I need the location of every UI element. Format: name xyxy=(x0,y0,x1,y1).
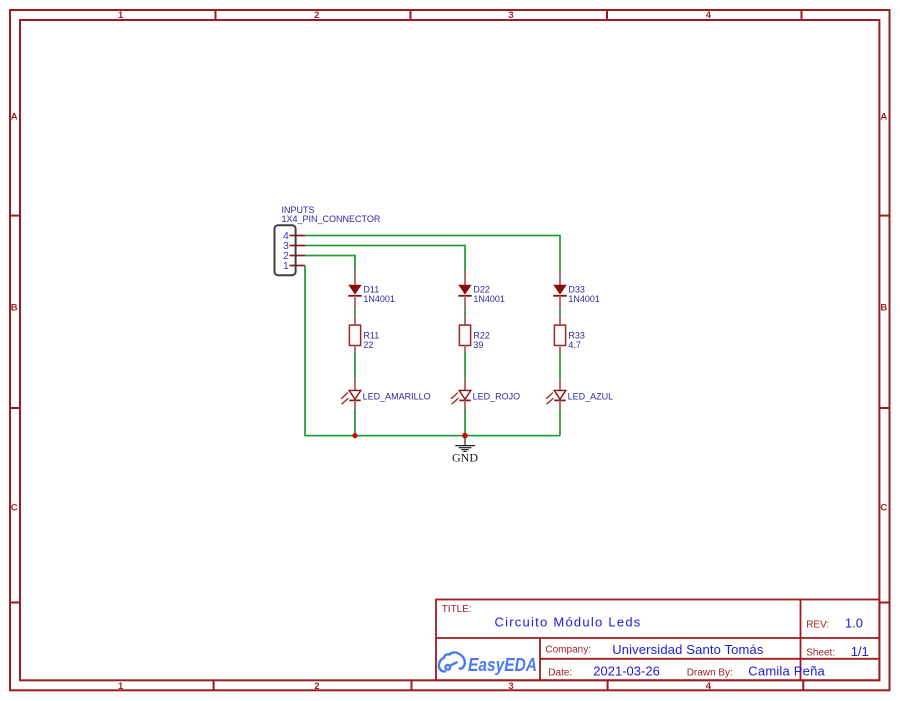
wire LED_AZUL to bus xyxy=(559,410,561,436)
junction at GND / bus xyxy=(462,433,468,439)
svg-text:Circuito Módulo Leds: Circuito Módulo Leds xyxy=(494,614,641,629)
svg-text:GND: GND xyxy=(452,450,478,464)
resistor R33 xyxy=(554,315,565,353)
wire R11 to LED_AMARILLO xyxy=(354,352,356,378)
svg-text:39: 39 xyxy=(473,340,483,350)
pin 3 stub xyxy=(290,245,306,247)
EasyEDA logo (decorative) xyxy=(439,652,465,671)
pin 2 stub xyxy=(290,255,306,257)
svg-text:1X4_PIN_CONNECTOR: 1X4_PIN_CONNECTOR xyxy=(282,214,381,224)
svg-text:Date:: Date: xyxy=(548,668,572,679)
ground GND xyxy=(452,436,478,464)
LED LED_ROJO xyxy=(451,378,471,409)
svg-text:LED_ROJO: LED_ROJO xyxy=(473,392,521,402)
junction at LED_AMARILLO / bus xyxy=(352,433,357,438)
wire pin4 to branch D33 xyxy=(305,236,560,272)
wire R22 to LED_ROJO xyxy=(464,352,466,378)
svg-text:1N4001: 1N4001 xyxy=(568,294,600,304)
wire pin2 to branch D11 xyxy=(305,256,355,272)
wire D22 to R22 xyxy=(464,310,466,315)
diode D11 xyxy=(348,271,361,310)
svg-text:B: B xyxy=(880,302,887,313)
svg-text:22: 22 xyxy=(363,340,373,350)
svg-text:1N4001: 1N4001 xyxy=(473,294,505,304)
svg-text:4.7: 4.7 xyxy=(568,340,581,350)
svg-text:2: 2 xyxy=(314,681,319,692)
svg-text:2: 2 xyxy=(314,10,319,21)
diode D33 xyxy=(553,271,566,310)
svg-text:1N4001: 1N4001 xyxy=(363,294,395,304)
svg-text:LED_AZUL: LED_AZUL xyxy=(568,392,614,402)
LED LED_AZUL xyxy=(546,378,566,409)
svg-text:A: A xyxy=(880,111,887,122)
wire pin3 to branch D22 xyxy=(305,246,465,272)
diode D22 xyxy=(458,271,471,310)
svg-text:TITLE:: TITLE: xyxy=(442,604,472,615)
svg-text:1: 1 xyxy=(118,681,124,692)
title block (decorative) xyxy=(436,600,879,681)
svg-text:Universidad Santo Tomás: Universidad Santo Tomás xyxy=(612,642,764,657)
wire D11 to R11 xyxy=(354,310,356,315)
svg-text:1/1: 1/1 xyxy=(851,644,869,659)
svg-text:4: 4 xyxy=(706,681,712,692)
svg-text:Company:: Company: xyxy=(545,645,591,656)
wire D33 to R33 xyxy=(559,310,561,315)
svg-text:4: 4 xyxy=(706,10,712,21)
svg-text:REV:: REV: xyxy=(806,619,829,630)
svg-text:Camila Peña: Camila Peña xyxy=(748,664,825,679)
svg-text:A: A xyxy=(11,111,18,122)
svg-text:C: C xyxy=(880,502,887,513)
svg-text:2021-03-26: 2021-03-26 xyxy=(593,664,660,679)
wire LED_ROJO to bus xyxy=(464,410,466,436)
svg-text:3: 3 xyxy=(508,681,513,692)
wire pin1 to ground bus xyxy=(305,266,560,436)
svg-text:Sheet:: Sheet: xyxy=(806,647,835,658)
svg-text:3: 3 xyxy=(508,10,513,21)
connector CN1 INPUTS 1X4_PIN_CONNECTOR xyxy=(275,225,296,275)
resistor R22 xyxy=(459,315,470,353)
svg-text:B: B xyxy=(11,302,18,313)
LED LED_AMARILLO xyxy=(341,378,361,409)
resistor R11 xyxy=(349,315,360,353)
svg-text:1.0: 1.0 xyxy=(845,615,863,630)
pin 4 stub xyxy=(290,235,306,237)
svg-text:1: 1 xyxy=(283,260,289,272)
svg-text:LED_AMARILLO: LED_AMARILLO xyxy=(363,392,431,402)
pin 1 stub xyxy=(290,265,306,267)
svg-text:EasyEDA: EasyEDA xyxy=(468,654,537,675)
wire R33 to LED_AZUL xyxy=(559,352,561,378)
wire LED_AMARILLO to bus xyxy=(354,410,356,436)
svg-text:Drawn By:: Drawn By: xyxy=(687,668,733,679)
svg-text:C: C xyxy=(11,502,18,513)
svg-text:1: 1 xyxy=(118,10,124,21)
